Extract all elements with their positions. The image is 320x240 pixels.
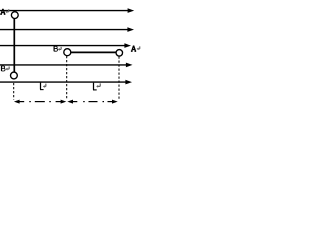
dimension span right — [67, 100, 117, 104]
return mark after A — [7, 9, 9, 12]
ring A (rod right end) — [116, 50, 123, 57]
label B (middle rod left end) — [53, 46, 55, 51]
label L (right span) — [93, 83, 95, 90]
return mark after right A — [138, 46, 140, 49]
ring A — [11, 12, 18, 19]
dimension span left — [14, 100, 66, 104]
label A (top-left) — [0, 9, 5, 15]
flow line 1 — [0, 8, 134, 13]
flow line 2 — [0, 27, 134, 32]
return mark after B — [7, 67, 9, 70]
label L (left span) — [40, 83, 42, 90]
ring B — [11, 72, 18, 79]
label A (rod right end) — [131, 46, 136, 52]
extension line middle (dashed) — [66, 56, 68, 99]
rod BA (horizontal) — [71, 51, 117, 53]
return mark after middle B — [59, 47, 61, 50]
flow line 4 — [0, 63, 133, 68]
extension line right (dashed) — [118, 57, 120, 100]
flow line 5 — [0, 80, 132, 85]
return mark after right L — [98, 83, 100, 86]
flow line 3 — [0, 43, 131, 48]
label B (bottom-left) — [1, 66, 3, 71]
ring B (rod left end) — [64, 49, 71, 56]
return mark after left L — [44, 84, 45, 87]
rod AB (vertical) — [13, 18, 15, 72]
extension line left (dashed) — [13, 83, 15, 100]
